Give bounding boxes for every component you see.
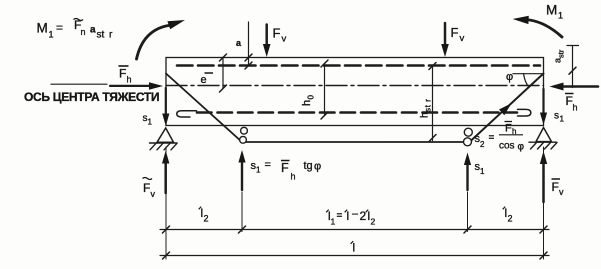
phi angle reference line	[513, 73, 544, 75]
tendon left diagonal	[166, 74, 242, 143]
svg-text:n: n	[81, 27, 86, 37]
svg-text:1: 1	[480, 167, 485, 176]
svg-text:tg: tg	[304, 160, 313, 172]
label Fh left	[119, 65, 129, 67]
bottom reinforcement dashed line	[197, 111, 517, 114]
upper dimension line l2 l1 l2	[160, 229, 549, 231]
dimension a extension line	[248, 22, 250, 66]
deviator circles right	[464, 128, 472, 136]
svg-text:a: a	[236, 38, 242, 48]
svg-text:v: v	[151, 189, 156, 199]
dimension e vertical line	[222, 57, 224, 89]
svg-text:=: =	[489, 133, 495, 144]
label e with bar	[205, 72, 214, 74]
lower dimension line l	[160, 255, 549, 257]
svg-text:h: h	[573, 103, 578, 113]
svg-text:l: l	[353, 241, 356, 255]
svg-text:M: M	[546, 3, 557, 18]
dimension h0 vertical line	[324, 64, 326, 116]
svg-text:h: h	[127, 75, 132, 85]
force Fh arrow left	[110, 85, 149, 87]
svg-text:M: M	[37, 21, 48, 36]
svg-text:−: −	[352, 207, 359, 221]
svg-text:F: F	[119, 67, 126, 81]
svg-text:1: 1	[560, 115, 565, 124]
tendon bottom run	[242, 141, 470, 143]
dim a ticks	[245, 54, 252, 69]
svg-text:F: F	[552, 180, 559, 194]
deviator circles left	[241, 127, 248, 134]
label a_str rotated	[553, 49, 566, 63]
dimension h_str vertical line	[432, 66, 434, 141]
svg-text:st r: st r	[424, 98, 433, 112]
svg-text:1: 1	[331, 217, 336, 227]
right support ground hatching	[529, 141, 557, 143]
force Fv arrow top right	[444, 23, 447, 45]
left support ground hatching	[150, 142, 178, 144]
force s1 arrow mid-right (up at bend)	[466, 164, 468, 190]
reaction Fv arrow right (up)	[542, 164, 545, 202]
svg-text:F: F	[505, 123, 512, 135]
svg-text:ОСЬ ЦЕНТРА ТЯЖЕСТИ: ОСЬ ЦЕНТРА ТЯЖЕСТИ	[24, 90, 159, 104]
tendon right diagonal with s2 arrowhead	[470, 74, 544, 143]
top reinforcement dashed line	[177, 64, 540, 67]
svg-text:v: v	[559, 187, 564, 197]
left support triangle	[157, 128, 174, 142]
right rebar hook	[518, 109, 531, 116]
svg-text:=: =	[337, 211, 343, 222]
dimension a_str vertical line	[572, 46, 574, 88]
svg-text:2: 2	[371, 217, 376, 227]
svg-text:h: h	[301, 100, 313, 106]
svg-text:cos: cos	[499, 141, 515, 152]
phi angle arc	[524, 74, 530, 88]
reaction Fv arrow left (up)	[164, 163, 167, 193]
label Fv reaction left	[143, 178, 153, 180]
label Fv reaction right	[552, 178, 561, 180]
svg-text:1: 1	[49, 30, 54, 40]
svg-text:0: 0	[307, 95, 316, 100]
svg-text:φ: φ	[314, 161, 321, 173]
svg-text:v: v	[460, 33, 465, 44]
svg-text:1: 1	[558, 11, 563, 21]
svg-text:F: F	[273, 26, 281, 41]
svg-text:F: F	[451, 25, 459, 40]
label Fh right	[565, 93, 574, 95]
svg-text:F: F	[143, 181, 150, 195]
svg-text:str: str	[557, 49, 566, 58]
moment M1 arc left	[137, 26, 169, 60]
svg-text:2: 2	[360, 209, 367, 223]
svg-text:h: h	[291, 172, 296, 182]
force s1 arrow left (down along beam edge)	[165, 88, 167, 114]
svg-text:2: 2	[480, 140, 485, 149]
centroid axis dash-dot line	[166, 85, 544, 87]
svg-text:l: l	[347, 209, 350, 223]
svg-text:v: v	[282, 34, 287, 45]
force Fh arrow right	[563, 85, 598, 88]
axis arrow thin segment	[51, 83, 107, 85]
svg-text:=: =	[56, 21, 63, 35]
beam outline rectangle	[166, 58, 544, 126]
svg-text:=: =	[265, 159, 271, 171]
svg-text:2: 2	[508, 214, 513, 224]
left rebar hook	[177, 111, 197, 117]
dimension extension lines	[165, 147, 167, 259]
svg-text:F: F	[281, 161, 289, 175]
svg-text:1: 1	[256, 166, 261, 175]
svg-text:a: a	[90, 25, 96, 36]
force Fv arrow top left	[265, 25, 268, 46]
svg-text:r: r	[109, 30, 113, 41]
svg-text:φ: φ	[506, 71, 513, 83]
svg-text:e: e	[201, 74, 207, 86]
svg-text:st: st	[97, 30, 105, 41]
moment M1 arc right	[530, 20, 563, 37]
svg-text:φ: φ	[518, 142, 525, 153]
force s1 arrow mid-left (up at bend)	[241, 162, 243, 190]
right support triangle	[536, 128, 552, 142]
svg-text:2: 2	[204, 214, 209, 224]
label h_str rotated	[420, 98, 433, 118]
label h0 rotated	[301, 95, 316, 107]
force s1 arrow right (down along beam edge)	[542, 89, 544, 113]
svg-text:s: s	[554, 111, 559, 122]
svg-text:1: 1	[148, 118, 153, 127]
svg-text:h: h	[420, 112, 431, 118]
